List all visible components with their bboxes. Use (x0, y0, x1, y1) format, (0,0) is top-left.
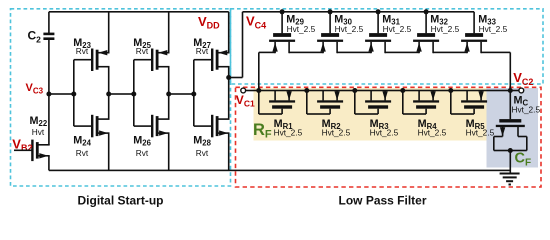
junction M30 gate on VC4 rail (328, 9, 333, 14)
digital start-up cyan dashed box (11, 9, 231, 186)
svg-text:Hvt_2.5: Hvt_2.5 (383, 24, 412, 34)
transistor MR5 (450, 91, 495, 138)
wire M26 gate riser (134, 125, 152, 127)
svg-text:Digital Start-up: Digital Start-up (78, 193, 164, 207)
wire C2 left riser top (48, 12, 50, 34)
wire inverter 1 output segment (109, 93, 134, 95)
transistor MC (493, 91, 540, 152)
wire M27 source to VDD (228, 12, 230, 53)
junction M29 gate on VC4 rail (280, 9, 285, 14)
node VC2 terminal (510, 90, 519, 92)
wire M29 left S/D down to VC1 bus (259, 52, 275, 54)
svg-text:Rvt: Rvt (76, 148, 89, 158)
LPF top cyan dashed box (231, 9, 544, 84)
svg-text:Hvt_2.5: Hvt_2.5 (287, 24, 316, 34)
wire M25 source to VDD (168, 12, 170, 53)
CF gray highlight box (487, 88, 539, 168)
wire M31-M32 series link (385, 52, 419, 54)
svg-text:Hvt_2.5: Hvt_2.5 (466, 127, 495, 137)
junction MR2 gate tap on bus (304, 88, 309, 93)
wire M23 gate riser (74, 59, 92, 61)
junction MR1 gate tap on bus (256, 88, 261, 93)
transistor M28 (193, 115, 229, 158)
svg-text:Hvt_2.5: Hvt_2.5 (322, 127, 351, 137)
transistor M29 (269, 12, 315, 53)
wire M28 gate riser (194, 125, 212, 127)
RF yellow highlight box (254, 88, 487, 141)
svg-text:Low Pass Filter: Low Pass Filter (338, 193, 426, 207)
wire M24 gate riser (74, 125, 92, 127)
wire M25-M26 drain column (168, 67, 170, 119)
wire VB2 gate lead (14, 150, 32, 152)
transistor MR4 (402, 91, 447, 138)
LPF red dashed box (236, 87, 542, 187)
ground (500, 173, 520, 186)
junction MC source-drain tie (508, 148, 513, 153)
wire M28 source to ground rail (228, 133, 230, 170)
wire VDD rail (49, 11, 229, 13)
wire C2 to VC3 (48, 40, 50, 94)
wire M23-M24 drain column (108, 67, 110, 119)
transistor M27 (193, 37, 229, 71)
capacitor C2 (43, 33, 54, 36)
svg-text:Rvt: Rvt (136, 46, 149, 56)
svg-text:Hvt_2.5: Hvt_2.5 (370, 127, 399, 137)
transistor M23 (73, 37, 109, 71)
junction MR4 gate tap on bus (400, 88, 405, 93)
wire VC3 segment (49, 93, 74, 95)
wire inverter 2 output segment (169, 93, 194, 95)
junction VC2 (508, 88, 513, 93)
svg-text:Rvt: Rvt (136, 148, 149, 158)
svg-text:Hvt_2.5: Hvt_2.5 (274, 127, 303, 137)
transistor M26 (133, 115, 169, 158)
wire M23 source to VDD (108, 12, 110, 53)
wire M26 source to ground rail (168, 133, 170, 170)
wire VC1 bus (246, 90, 511, 92)
node VC1 terminal (241, 88, 246, 93)
transistor MR1 (258, 91, 303, 138)
transistor M32 (413, 12, 459, 53)
transistor M31 (365, 12, 411, 53)
transistor MR3 (354, 91, 399, 138)
wire M27-M28 drain column (228, 67, 230, 119)
wire M33 right S/D to VC2 (481, 52, 510, 54)
svg-text:Hvt: Hvt (32, 127, 45, 137)
transistor M25 (133, 37, 169, 71)
junction MR3 gate tap on bus (352, 88, 357, 93)
wire M24 source to ground rail (108, 133, 110, 170)
svg-text:Rvt: Rvt (196, 46, 209, 56)
wire M27 drain junction to VC4 riser (226, 75, 231, 80)
svg-text:Hvt_2.5: Hvt_2.5 (418, 127, 447, 137)
svg-text:Rvt: Rvt (76, 46, 89, 56)
wire M27 gate riser (194, 59, 212, 61)
transistor M24 (73, 115, 109, 158)
wire ground rail (49, 170, 510, 172)
wire M25 gate riser (134, 59, 152, 61)
wire MC to ground (510, 151, 512, 173)
junction M32 gate on VC4 rail (424, 9, 429, 14)
svg-text:Hvt_2.5: Hvt_2.5 (512, 105, 541, 115)
wire M22 drain to VC3 (48, 94, 50, 145)
transistor M22 (30, 115, 50, 161)
junction M31 gate on VC4 rail (376, 9, 381, 14)
wire M29-M30 series link (289, 52, 323, 54)
wire M22 source to ground rail (48, 156, 50, 171)
svg-text:Hvt_2.5: Hvt_2.5 (335, 24, 364, 34)
transistor M33 (461, 12, 507, 53)
svg-text:Hvt_2.5: Hvt_2.5 (431, 24, 460, 34)
svg-text:Rvt: Rvt (196, 148, 209, 158)
transistor M30 (317, 12, 363, 53)
wire VC4 rail (243, 11, 475, 13)
wire M30-M31 series link (337, 52, 371, 54)
wire M32-M33 series link (433, 52, 467, 54)
junction MR5 gate tap on bus (448, 88, 453, 93)
svg-text:Hvt_2.5: Hvt_2.5 (479, 24, 508, 34)
transistor MR2 (306, 91, 351, 138)
